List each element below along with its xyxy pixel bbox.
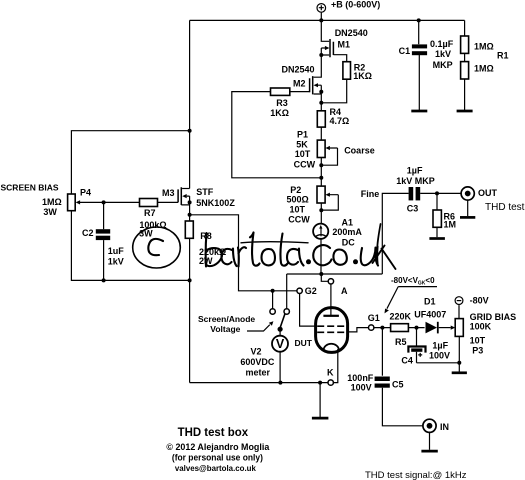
svg-text:R5: R5 (395, 337, 407, 347)
svg-text:GRID BIAS: GRID BIAS (470, 312, 517, 322)
svg-text:1MΩ: 1MΩ (42, 197, 62, 207)
svg-text:STF: STF (196, 187, 214, 197)
svg-text:meter: meter (246, 367, 271, 377)
svg-text:10T: 10T (290, 205, 306, 215)
svg-text:3W: 3W (139, 229, 153, 239)
svg-text:MKP: MKP (433, 60, 453, 70)
svg-text:M3: M3 (162, 188, 175, 198)
svg-text:IN: IN (440, 422, 449, 432)
svg-text:4.7Ω: 4.7Ω (330, 116, 350, 126)
svg-text:M1: M1 (338, 40, 351, 50)
svg-text:DUT: DUT (295, 338, 313, 348)
svg-text:© 2012 Alejandro Moglia: © 2012 Alejandro Moglia (166, 442, 270, 452)
svg-text:valves@bartola.co.uk: valves@bartola.co.uk (175, 463, 256, 473)
svg-text:1kV MKP: 1kV MKP (396, 176, 435, 186)
svg-text:1MΩ: 1MΩ (474, 42, 494, 52)
svg-text:C1: C1 (399, 46, 411, 56)
svg-text:5NK100Z: 5NK100Z (196, 198, 235, 208)
svg-text:0.1µF: 0.1µF (430, 39, 454, 49)
svg-text:C5: C5 (392, 380, 404, 390)
svg-text:10T: 10T (295, 149, 311, 159)
svg-text:Coarse: Coarse (344, 146, 375, 156)
svg-text:600VDC: 600VDC (240, 357, 275, 367)
svg-text:1M: 1M (444, 220, 457, 230)
svg-text:CCW: CCW (288, 214, 310, 224)
svg-text:A: A (341, 286, 348, 296)
svg-text:3W: 3W (43, 207, 57, 217)
svg-text:Fine: Fine (361, 189, 380, 199)
svg-text:CCW: CCW (294, 159, 316, 169)
svg-text:P2: P2 (290, 185, 301, 195)
svg-text:100nF: 100nF (347, 373, 374, 383)
svg-text:5K: 5K (296, 139, 308, 149)
svg-text:DN2540: DN2540 (282, 65, 315, 75)
svg-text:G2: G2 (305, 286, 317, 296)
svg-text:DC: DC (342, 238, 355, 248)
svg-text:500Ω: 500Ω (287, 195, 309, 205)
svg-text:1µF: 1µF (407, 166, 423, 176)
svg-text:220K: 220K (390, 311, 412, 321)
svg-text:200mA: 200mA (332, 227, 362, 237)
svg-text:V: V (276, 337, 285, 351)
svg-text:THD test: THD test (485, 202, 525, 213)
svg-text:R7: R7 (144, 208, 156, 218)
svg-text:P1: P1 (297, 129, 308, 139)
svg-text:-80V: -80V (470, 295, 489, 305)
svg-text:1kV: 1kV (108, 257, 124, 267)
svg-text:1KΩ: 1KΩ (270, 108, 289, 118)
svg-text:100K: 100K (470, 322, 492, 332)
svg-text:+B (0-600V): +B (0-600V) (331, 0, 380, 10)
svg-text:A1: A1 (342, 218, 354, 228)
svg-text:R3: R3 (276, 98, 288, 108)
svg-text:1MΩ: 1MΩ (474, 64, 494, 74)
svg-text:DN2540: DN2540 (335, 28, 368, 38)
svg-text:1µF: 1µF (432, 341, 448, 351)
svg-text:G1: G1 (368, 313, 380, 323)
svg-text:C4: C4 (401, 356, 413, 366)
svg-text:100V: 100V (429, 351, 450, 361)
svg-text:D1: D1 (424, 297, 436, 307)
svg-text:C2: C2 (82, 228, 94, 238)
svg-text:10T: 10T (470, 335, 486, 345)
svg-text:UF4007: UF4007 (414, 310, 446, 320)
svg-text:M2: M2 (293, 79, 306, 89)
svg-text:R1: R1 (497, 51, 509, 61)
svg-text:C3: C3 (407, 204, 419, 214)
svg-text:THD test signal:@ 1kHz: THD test signal:@ 1kHz (365, 470, 467, 480)
svg-text:Screen/Anode: Screen/Anode (198, 314, 255, 324)
svg-text:1uF: 1uF (108, 246, 125, 256)
svg-text:P4: P4 (80, 187, 91, 197)
svg-text:THD test box: THD test box (178, 425, 249, 439)
svg-text:Voltage: Voltage (210, 324, 240, 334)
svg-text:1kV: 1kV (435, 49, 451, 59)
svg-text:V2: V2 (251, 347, 262, 357)
svg-text:100V: 100V (351, 383, 372, 393)
svg-text:-80V<VGK<0: -80V<VGK<0 (391, 276, 435, 287)
svg-text:(for personal use only): (for personal use only) (172, 453, 263, 463)
svg-text:P3: P3 (472, 346, 483, 356)
svg-text:K: K (327, 368, 334, 378)
svg-text:SCREEN BIAS: SCREEN BIAS (1, 183, 59, 193)
svg-text:OUT: OUT (478, 188, 498, 198)
svg-text:1KΩ: 1KΩ (353, 71, 372, 81)
